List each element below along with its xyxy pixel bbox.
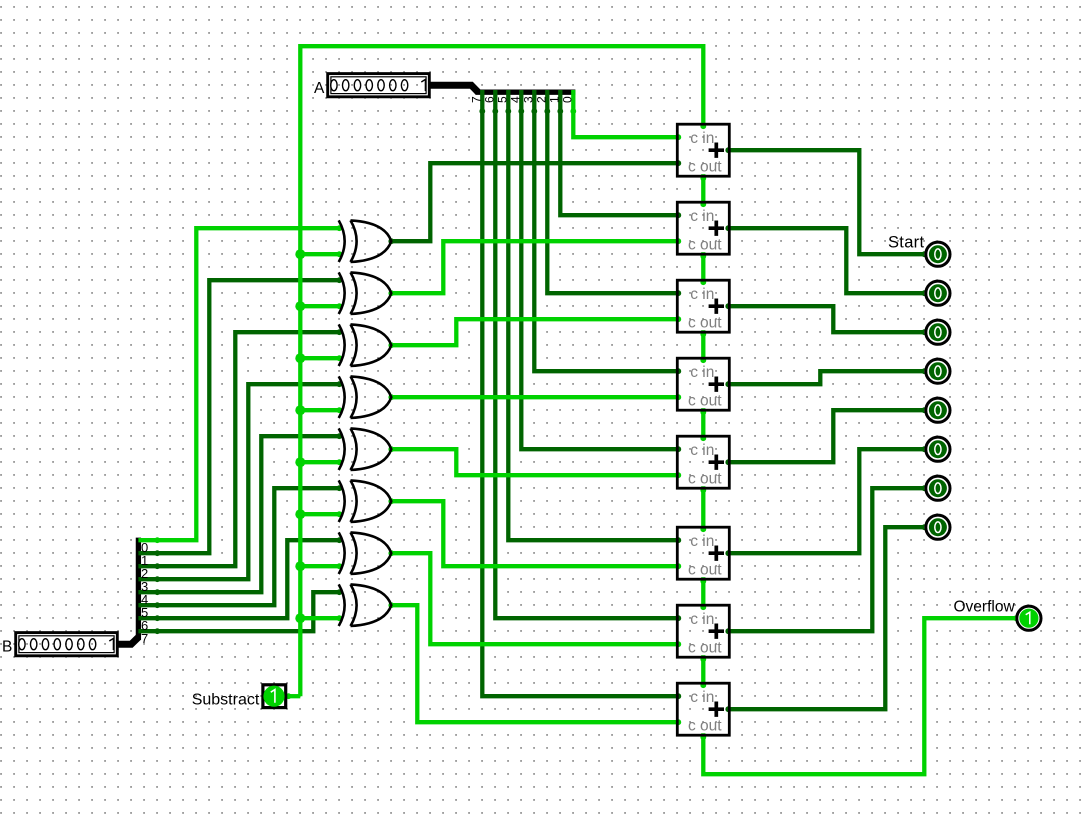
svg-text:c out: c out [688,640,722,657]
svg-text:c in: c in [690,130,714,147]
svg-text:c in: c in [690,611,714,628]
svg-text:0: 0 [560,96,574,103]
svg-text:7: 7 [141,631,148,646]
svg-text:c in: c in [690,689,714,706]
svg-text:3: 3 [521,96,535,103]
svg-text:c in: c in [690,286,714,303]
svg-text:c out: c out [688,471,722,488]
svg-text:6: 6 [482,96,496,103]
svg-text:7: 7 [469,96,483,103]
svg-text:c out: c out [688,718,722,735]
svg-text:c out: c out [688,562,722,579]
svg-text:c out: c out [688,159,722,176]
svg-text:Start: Start [888,234,924,252]
svg-text:c in: c in [690,442,714,459]
svg-text:c in: c in [690,533,714,550]
svg-text:2: 2 [534,96,548,103]
svg-text:A: A [314,80,325,97]
svg-text:c out: c out [688,315,722,332]
svg-text:c in: c in [690,208,714,225]
svg-text:5: 5 [495,96,509,103]
svg-text:c out: c out [688,393,722,410]
svg-text:4: 4 [508,96,522,103]
svg-text:B: B [2,639,12,656]
svg-text:c out: c out [688,237,722,254]
svg-text:1: 1 [547,96,561,103]
svg-text:c in: c in [690,364,714,381]
svg-text:Overflow: Overflow [954,599,1016,616]
svg-text:Substract: Substract [192,692,260,709]
